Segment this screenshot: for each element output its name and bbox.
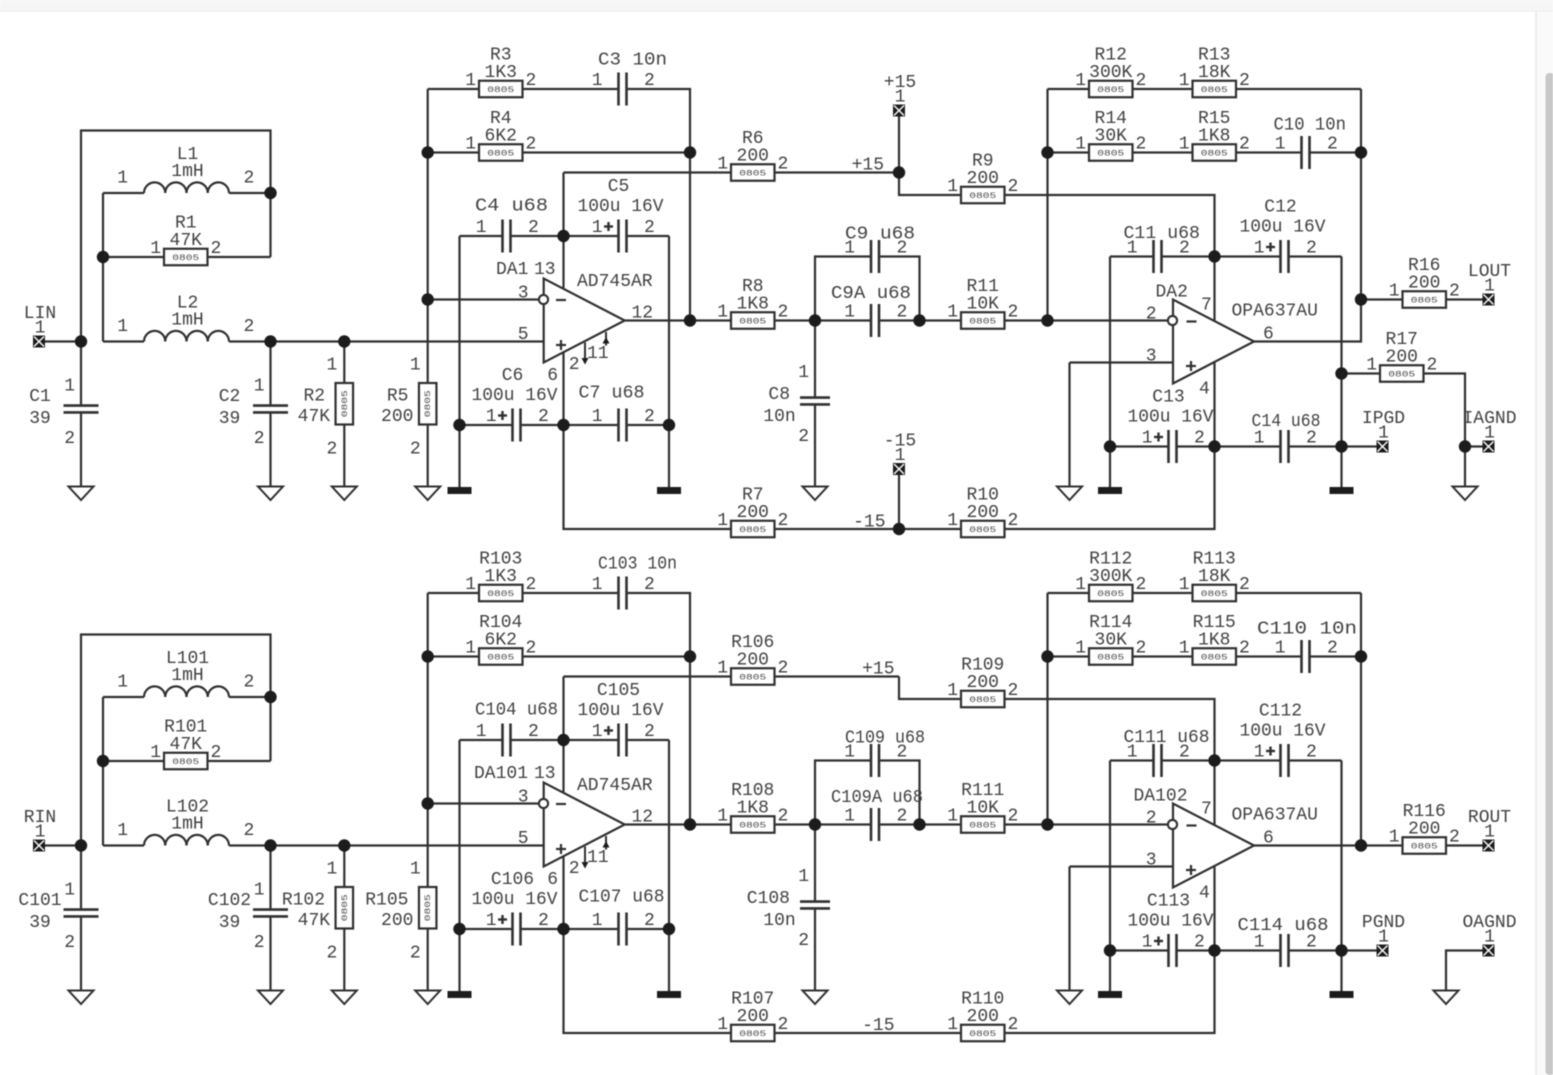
- resistor R9 (200): [947, 151, 1018, 203]
- svg-text:2: 2: [526, 639, 537, 659]
- wire R107 pin2 to R110 pin1 (-15 net): [775, 1032, 962, 1034]
- svg-text:2: 2: [1327, 639, 1338, 659]
- wire C111 pin1: [1110, 759, 1154, 761]
- svg-text:0805: 0805: [1411, 842, 1438, 852]
- svg-text:18K: 18K: [1198, 63, 1231, 83]
- wire V+ node drop: [562, 173, 564, 237]
- port IPGD: [1362, 409, 1405, 453]
- svg-text:13: 13: [534, 260, 556, 280]
- polarity +: [1154, 940, 1163, 942]
- wire C3 pin2 to output rail: [627, 89, 691, 321]
- wire LIN stub: [45, 340, 81, 342]
- svg-text:DA2: DA2: [1156, 283, 1188, 303]
- svg-text:DA1: DA1: [496, 260, 528, 280]
- svg-text:1: 1: [1075, 575, 1086, 595]
- ground (bar): [657, 991, 681, 998]
- svg-text:C3 10n: C3 10n: [598, 51, 667, 71]
- svg-text:1: 1: [717, 155, 728, 175]
- wire L102 pin1: [103, 844, 144, 846]
- svg-text:0805: 0805: [340, 390, 350, 417]
- resistor R13 (18K): [1179, 45, 1250, 97]
- svg-text:0805: 0805: [172, 757, 199, 767]
- svg-text:2: 2: [1179, 743, 1190, 763]
- wire C11 pin1: [1110, 255, 1154, 257]
- junction: [913, 818, 925, 830]
- wire C114 pin1: [1215, 949, 1281, 951]
- plus sign: [1186, 365, 1196, 367]
- wire DA2 pin 4 (V-): [1213, 361, 1215, 447]
- port RIN: [24, 808, 56, 852]
- svg-text:C113: C113: [1147, 892, 1190, 912]
- wire R1 pin2: [208, 256, 271, 258]
- ground: [1057, 991, 1082, 1005]
- junction: [453, 923, 465, 935]
- wire R116 pin2 to ROUT: [1446, 844, 1483, 846]
- svg-text:0805: 0805: [739, 673, 766, 683]
- polarity +: [1154, 436, 1163, 438]
- svg-text:2: 2: [644, 407, 655, 427]
- svg-text:47K: 47K: [170, 735, 203, 755]
- op-amp DA101 (AD745AR): [474, 764, 653, 890]
- svg-text:0805: 0805: [423, 894, 433, 921]
- wire V+ node drop: [562, 677, 564, 741]
- svg-text:1: 1: [592, 911, 603, 931]
- svg-text:2: 2: [1136, 639, 1147, 659]
- junction: [1355, 146, 1367, 158]
- svg-text:2: 2: [538, 407, 549, 427]
- svg-text:100u 16V: 100u 16V: [578, 197, 664, 217]
- wire R10 pin2 to DA2 V-: [1005, 447, 1215, 530]
- svg-text:2: 2: [778, 659, 789, 679]
- wire C114 pin2: [1289, 949, 1342, 951]
- svg-text:1: 1: [410, 860, 421, 880]
- op-amp DA1 (AD745AR): [496, 260, 653, 386]
- svg-text:1: 1: [1378, 424, 1389, 444]
- wire R17 pin2 to IAGND: [1424, 374, 1465, 447]
- svg-text:2: 2: [1327, 135, 1338, 155]
- svg-text:6: 6: [1263, 325, 1274, 345]
- svg-text:C6: C6: [502, 366, 524, 386]
- minus sign: [1187, 824, 1197, 826]
- wire feedback rail left (DA2): [1046, 89, 1048, 321]
- svg-text:47K: 47K: [170, 231, 203, 251]
- wire R5 pin2 to ground: [427, 425, 429, 487]
- wire C5 pin2: [627, 235, 670, 237]
- svg-text:1: 1: [1142, 933, 1153, 953]
- svg-text:2: 2: [526, 135, 537, 155]
- junction: [557, 419, 569, 431]
- wire RIN stub: [45, 844, 81, 846]
- wire inverting input DA101: [428, 802, 538, 804]
- ground: [1453, 487, 1478, 501]
- wire R4 pin2: [523, 151, 691, 153]
- svg-text:C106: C106: [491, 870, 534, 890]
- svg-text:1: 1: [254, 881, 265, 901]
- svg-text:2: 2: [897, 807, 908, 827]
- wire C9A pin1: [815, 319, 871, 321]
- svg-text:2: 2: [644, 722, 655, 742]
- svg-text:2: 2: [778, 1015, 789, 1035]
- minus sign: [556, 803, 566, 805]
- junction: [1335, 440, 1347, 452]
- pin 11 stub: [605, 332, 607, 346]
- svg-text:6: 6: [547, 870, 558, 890]
- svg-text:2: 2: [1179, 239, 1190, 259]
- svg-text:C7 u68: C7 u68: [579, 384, 645, 404]
- svg-text:200: 200: [1408, 819, 1440, 839]
- wire signal row to op-amp +: [229, 340, 544, 342]
- svg-text:1: 1: [947, 511, 958, 531]
- svg-text:1: 1: [326, 356, 337, 376]
- wire C101 pin2 to ground: [80, 916, 82, 990]
- wire C4 pin1: [460, 235, 503, 237]
- svg-text:2: 2: [211, 239, 222, 259]
- svg-text:1: 1: [1179, 575, 1190, 595]
- svg-text:1: 1: [117, 673, 128, 693]
- svg-text:2: 2: [528, 218, 539, 238]
- svg-text:1: 1: [1179, 71, 1190, 91]
- wire +15 to R109 pin1: [899, 677, 961, 700]
- svg-text:100u 16V: 100u 16V: [1128, 408, 1214, 428]
- svg-text:1: 1: [410, 356, 421, 376]
- plus sign: [1186, 869, 1196, 871]
- wire +15 port stub: [898, 117, 900, 173]
- svg-text:200: 200: [737, 146, 769, 166]
- svg-text:OPA637AU: OPA637AU: [1232, 806, 1318, 826]
- port ROUT: [1468, 808, 1511, 852]
- svg-text:200: 200: [1386, 347, 1418, 367]
- svg-text:1K3: 1K3: [485, 567, 517, 587]
- svg-text:1: 1: [798, 363, 809, 383]
- svg-text:0805: 0805: [739, 525, 766, 535]
- wire C7 pin1: [564, 424, 619, 426]
- wire R111 pin1: [920, 823, 962, 825]
- svg-text:C109A u68: C109A u68: [831, 788, 923, 808]
- wire R115 pin2 to C110: [1236, 655, 1302, 657]
- ground (bar): [1098, 991, 1122, 998]
- svg-text:3: 3: [1146, 851, 1157, 871]
- svg-text:2: 2: [1306, 743, 1317, 763]
- svg-text:1mH: 1mH: [171, 666, 203, 686]
- wire C14 pin2: [1289, 445, 1342, 447]
- capacitor C110 (10n): [1257, 620, 1357, 674]
- resistor R113 (18K): [1179, 549, 1250, 601]
- wire to IAGND port: [1465, 445, 1483, 447]
- svg-text:C109 u68: C109 u68: [845, 729, 925, 749]
- capacitor C104 (u68): [475, 701, 558, 757]
- svg-text:2: 2: [1008, 1015, 1019, 1035]
- wire C108 pin2 to ground: [814, 908, 816, 990]
- wire C111 pin2: [1162, 759, 1215, 761]
- polarity +: [498, 414, 507, 416]
- svg-text:4: 4: [1199, 380, 1210, 400]
- wire C13 pin1: [1110, 445, 1169, 447]
- wire C108 pin1: [814, 825, 816, 902]
- wire C12 pin1: [1215, 255, 1281, 257]
- wire loop left rail: [102, 193, 104, 342]
- svg-text:2: 2: [1146, 809, 1157, 829]
- wire R14 pin2 to R15 pin1: [1133, 151, 1193, 153]
- svg-text:0805: 0805: [487, 653, 514, 663]
- svg-text:DA101: DA101: [474, 764, 528, 784]
- ground: [69, 991, 94, 1005]
- svg-text:2: 2: [1239, 639, 1250, 659]
- resistor R16 (200): [1389, 256, 1460, 308]
- wire L1 pin1: [103, 192, 144, 194]
- resistor R14 (30K): [1075, 109, 1146, 161]
- svg-text:1mH: 1mH: [171, 815, 203, 835]
- svg-text:1: 1: [592, 71, 603, 91]
- resistor R1 (47K): [150, 213, 221, 265]
- svg-text:1: 1: [35, 319, 46, 339]
- svg-text:1: 1: [947, 1015, 958, 1035]
- port LIN: [24, 304, 56, 348]
- capacitor C9A (u68): [831, 284, 911, 337]
- svg-text:C10 10n: C10 10n: [1274, 116, 1347, 136]
- svg-text:1: 1: [64, 377, 75, 397]
- wire R110 pin2 to DA102 V-: [1005, 951, 1215, 1034]
- wire DA101 pin 6 (V-): [562, 857, 564, 930]
- wire inverting input DA1: [428, 298, 538, 300]
- svg-text:2: 2: [1427, 356, 1438, 376]
- wire C14 pin1: [1215, 445, 1281, 447]
- ground: [803, 487, 828, 501]
- wire R13 pin2: [1236, 88, 1361, 90]
- svg-text:1: 1: [1484, 424, 1495, 444]
- ground (bar): [1098, 487, 1122, 494]
- svg-text:1: 1: [150, 743, 161, 763]
- wire R2 pin2 to ground: [343, 425, 345, 487]
- capacitor C113 (100u 16V): [1128, 892, 1214, 968]
- wire ground rail (C11/C13): [1109, 761, 1111, 992]
- wire L101 pin1: [103, 696, 144, 698]
- wire C12 pin2: [1289, 255, 1342, 257]
- svg-text:2: 2: [326, 944, 337, 964]
- svg-text:2: 2: [244, 673, 255, 693]
- svg-text:1: 1: [1179, 639, 1190, 659]
- wire C107 pin2: [627, 928, 670, 930]
- svg-text:1: 1: [947, 303, 958, 323]
- wire C106 pin2: [521, 928, 564, 930]
- inverting input bubble: [1168, 820, 1177, 829]
- resistor R17 (200): [1366, 330, 1437, 382]
- resistor R115 (1K8): [1179, 613, 1250, 665]
- wire R104 pin1: [428, 655, 479, 657]
- wire DA1 pin 13 (V+): [562, 236, 564, 289]
- wire R105 pin2 to ground: [427, 929, 429, 991]
- capacitor C102 (39): [208, 881, 288, 954]
- junction: [1041, 818, 1053, 830]
- polarity +: [604, 225, 613, 227]
- svg-text:6: 6: [1263, 829, 1274, 849]
- resistor R106 (200): [717, 633, 788, 685]
- svg-text:2: 2: [1146, 305, 1157, 325]
- capacitor C11 (u68): [1124, 224, 1201, 273]
- svg-text:1: 1: [592, 218, 603, 238]
- wire R4 pin1: [428, 151, 479, 153]
- wire -15 port stub: [898, 475, 900, 529]
- junction: [264, 839, 276, 851]
- junction: [1041, 650, 1053, 662]
- wire R106 pin1: [564, 675, 732, 677]
- resistor R107 (200): [717, 989, 788, 1041]
- wire DA102 + input to ground: [1068, 867, 1070, 991]
- svg-text:C13: C13: [1152, 388, 1184, 408]
- svg-text:1: 1: [844, 807, 855, 827]
- resistor R105 (200): [365, 860, 436, 964]
- wire ground rail (C5/C7): [668, 740, 670, 991]
- junction: [75, 839, 87, 851]
- svg-text:100u 16V: 100u 16V: [578, 701, 664, 721]
- wire DA102 pin 4 (V-): [1213, 865, 1215, 951]
- svg-text:39: 39: [219, 409, 241, 429]
- wire C103 pin2 to output rail: [627, 593, 691, 825]
- svg-text:2: 2: [244, 169, 255, 189]
- svg-text:2: 2: [1194, 429, 1205, 449]
- junction: [1335, 367, 1347, 379]
- svg-text:10n: 10n: [763, 911, 795, 931]
- wire C104 pin2: [511, 739, 564, 741]
- wire C6 pin2: [521, 424, 564, 426]
- wire R114 pin1: [1048, 655, 1090, 657]
- wire feedback rail right to output: [1254, 89, 1361, 342]
- wire R103 pin1: [428, 592, 479, 594]
- svg-text:100u 16V: 100u 16V: [1128, 912, 1214, 932]
- ground (bar): [657, 487, 681, 494]
- resistor R12 (300K): [1075, 45, 1146, 97]
- svg-text:2: 2: [569, 859, 580, 879]
- svg-text:2: 2: [526, 71, 537, 91]
- port IAGND: [1462, 409, 1516, 453]
- wire R15 pin2 to C10: [1236, 151, 1302, 153]
- wire C9A pin2: [879, 319, 920, 321]
- capacitor C3 (10n): [592, 51, 667, 106]
- wire R113 pin2: [1236, 592, 1361, 594]
- resistor R111 (10K): [947, 781, 1018, 833]
- svg-text:11: 11: [587, 848, 609, 868]
- svg-text:200: 200: [967, 1007, 999, 1027]
- svg-text:2: 2: [644, 575, 655, 595]
- capacitor C2 (39): [219, 377, 288, 450]
- svg-text:1: 1: [1254, 429, 1265, 449]
- wire DA102 non-inverting input: [1070, 865, 1174, 867]
- svg-text:1: 1: [117, 317, 128, 337]
- svg-text:200: 200: [967, 169, 999, 189]
- inductor L2 (1mH): [117, 294, 254, 342]
- capacitor C10 (10n): [1274, 116, 1347, 170]
- svg-text:100u 16V: 100u 16V: [472, 890, 558, 910]
- svg-text:1: 1: [150, 239, 161, 259]
- resistor R5 (200): [381, 356, 436, 460]
- svg-text:100u 16V: 100u 16V: [472, 386, 558, 406]
- svg-text:1: 1: [1484, 928, 1495, 948]
- capacitor C106 (100u 16V): [472, 870, 558, 946]
- capacitor C105 (100u 16V): [578, 681, 664, 757]
- resistor R104 (6K2): [465, 613, 536, 665]
- wire R6 pin1: [564, 171, 732, 173]
- wire C7 pin2: [627, 424, 670, 426]
- svg-text:0805: 0805: [1201, 653, 1228, 663]
- capacitor C13 (100u 16V): [1128, 388, 1214, 464]
- svg-text:0805: 0805: [1388, 370, 1415, 380]
- svg-text:C2: C2: [219, 387, 241, 407]
- browser top strip: [0, 0, 1553, 11]
- svg-text:1: 1: [1127, 743, 1138, 763]
- wire R8 pin2: [775, 319, 816, 321]
- svg-text:1: 1: [1484, 277, 1495, 297]
- svg-text:2: 2: [1136, 71, 1147, 91]
- svg-text:0805: 0805: [1411, 296, 1438, 306]
- svg-text:39: 39: [219, 913, 241, 933]
- svg-text:18K: 18K: [1198, 567, 1231, 587]
- port LOUT: [1468, 262, 1511, 306]
- wire C13 pin2: [1177, 445, 1215, 447]
- resistor R10 (200): [947, 485, 1018, 537]
- svg-text:R105: R105: [365, 891, 408, 911]
- svg-text:R2: R2: [303, 387, 325, 407]
- ground (bar): [1330, 487, 1354, 494]
- svg-text:1: 1: [1179, 135, 1190, 155]
- junction: [453, 419, 465, 431]
- svg-text:2: 2: [1239, 575, 1250, 595]
- svg-text:0805: 0805: [172, 253, 199, 263]
- polarity +: [604, 729, 613, 731]
- wire DA2 pin 7 (V+): [1213, 257, 1215, 323]
- junction: [422, 293, 434, 305]
- svg-text:2: 2: [244, 821, 255, 841]
- wire R3 pin1: [428, 88, 479, 90]
- wire C101 pin1: [80, 846, 82, 910]
- svg-text:1: 1: [465, 575, 476, 595]
- svg-text:200: 200: [381, 407, 413, 427]
- junction: [1355, 293, 1367, 305]
- wire C1 pin1: [80, 342, 82, 406]
- wire R103 pin2 to C103: [523, 592, 619, 594]
- svg-text:30K: 30K: [1095, 126, 1128, 146]
- svg-text:0805: 0805: [423, 390, 433, 417]
- wire C104 pin1: [460, 739, 503, 741]
- wire C9 branch left: [815, 257, 871, 321]
- minus sign: [556, 299, 566, 301]
- polarity +: [498, 918, 507, 920]
- svg-text:1: 1: [1127, 239, 1138, 259]
- svg-text:47K: 47K: [298, 407, 331, 427]
- wire R3 pin2 to C3: [523, 88, 619, 90]
- svg-text:2: 2: [528, 722, 539, 742]
- svg-text:C110 10n: C110 10n: [1257, 620, 1357, 640]
- capacitor C101 (39): [18, 881, 98, 954]
- svg-text:1: 1: [254, 377, 265, 397]
- plus sign: [556, 848, 566, 850]
- junction: [1041, 314, 1053, 326]
- junction: [97, 251, 109, 263]
- wire R102 pin1: [343, 846, 345, 888]
- wire R114 pin2 to R115 pin1: [1133, 655, 1193, 657]
- inductor L1 (1mH): [117, 145, 254, 193]
- wire V- node to R107: [564, 929, 732, 1033]
- wire C10 pin2: [1310, 151, 1362, 153]
- capacitor C4 (u68): [475, 197, 548, 253]
- svg-text:0805: 0805: [969, 1029, 996, 1039]
- svg-text:C1: C1: [29, 387, 51, 407]
- svg-text:5: 5: [518, 829, 529, 849]
- svg-text:2: 2: [644, 218, 655, 238]
- wire C2 pin1: [269, 342, 271, 406]
- capacitor C109 (u68): [844, 729, 925, 778]
- svg-text:2: 2: [244, 317, 255, 337]
- svg-text:1mH: 1mH: [171, 311, 203, 331]
- svg-text:2: 2: [526, 575, 537, 595]
